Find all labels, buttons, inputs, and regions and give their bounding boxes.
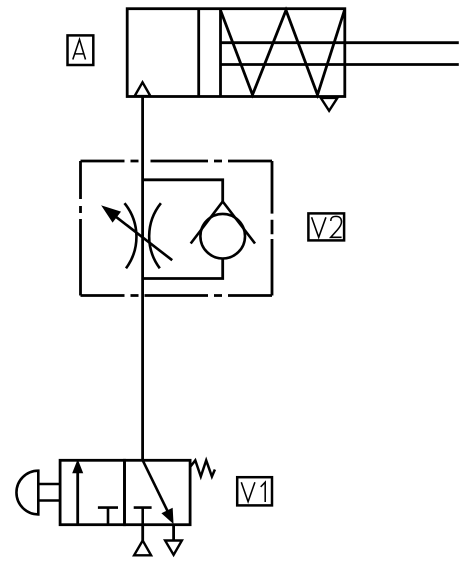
V2 check valve ball circle [200, 214, 245, 259]
V2 enclosure dashed box right edge [271, 161, 274, 296]
V2 check valve seat [191, 202, 255, 244]
V1 supply port line [141, 525, 144, 541]
V1 return spring [191, 460, 215, 476]
valve V1 body left box [60, 460, 124, 524]
V1 left position blocked port [98, 508, 118, 525]
V1 pushbutton actuator [16, 471, 60, 515]
cylinder A body [127, 9, 345, 97]
cylinder A port triangle [135, 82, 151, 96]
V1 left position flow arrow [73, 461, 83, 525]
cylinder A return spring [221, 10, 345, 95]
V2 check valve bypass line [143, 180, 223, 202]
valve V1 body right box [125, 460, 191, 524]
cylinder A exhaust triangle [321, 98, 338, 111]
label V1 [237, 477, 272, 505]
label A [68, 35, 94, 65]
cylinder A piston rod [221, 43, 459, 65]
V2 throttle right arc [149, 203, 161, 268]
V1 supply triangle [134, 541, 151, 556]
V1 exhaust triangle [165, 541, 182, 555]
V2 throttle left arc [125, 203, 137, 268]
V2 enclosure dashed box top edge [81, 160, 273, 163]
V2 enclosure dashed box bottom edge [81, 294, 273, 297]
V2 enclosure dashed box left edge [79, 161, 82, 296]
V1 exhaust port line [172, 525, 175, 541]
label V2 [308, 213, 344, 240]
V1 right position blocked port [134, 508, 152, 525]
V1 right position exhaust arrow [143, 460, 173, 523]
wire cylinder to V1 main line [141, 97, 144, 461]
cylinder A piston [199, 9, 221, 97]
V2 throttle adjustment arrow [102, 206, 172, 260]
